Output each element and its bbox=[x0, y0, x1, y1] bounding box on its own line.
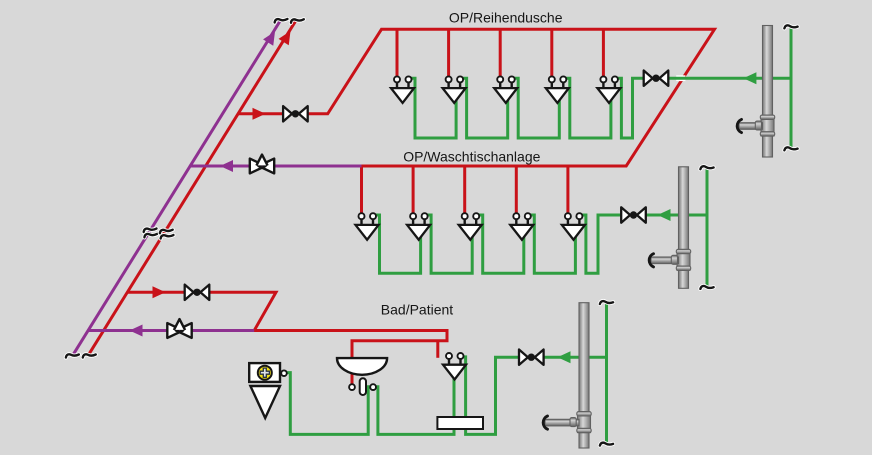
dispenser funnel triangle bbox=[250, 386, 280, 418]
wire green loop shower 4-5 bbox=[565, 78, 611, 138]
washbasin fixture 5 bbox=[562, 213, 585, 240]
wire green loop shower 5 to supply line bbox=[617, 78, 791, 138]
arrow red to Bad/Patient bbox=[153, 286, 166, 298]
wire green from dispenser to basin bbox=[287, 373, 368, 435]
arrow green cold supply row 3 bbox=[558, 351, 571, 363]
wire purple return Waschtischanlage bbox=[190, 165, 361, 168]
wire purple return Bad/Patient bbox=[88, 329, 254, 332]
arrow red flow up riser bbox=[279, 28, 296, 45]
wire green loop shower 2-3 bbox=[462, 78, 508, 138]
break mark green line 1 top bbox=[784, 25, 797, 28]
break mark green line 2 bottom bbox=[700, 286, 713, 289]
wire red drop to washbasin 4 bbox=[515, 166, 518, 213]
break mark green line 2 top bbox=[700, 166, 713, 169]
arrow purple return Bad/Patient bbox=[130, 325, 143, 337]
washbasin drain circle left bbox=[349, 384, 355, 390]
wire green loop washbasin 2-3 bbox=[427, 215, 473, 273]
svg-text:OP/Waschtischanlage: OP/Waschtischanlage bbox=[403, 149, 540, 165]
riser pipe 2 (OP/Waschtischanlage) with T-fitting bbox=[649, 167, 691, 288]
break mark purple riser top bbox=[274, 18, 287, 23]
dispenser box bbox=[249, 363, 280, 382]
break mark red riser top bbox=[291, 18, 304, 23]
wire red drop to washbasin 1 bbox=[360, 166, 363, 213]
wire green loop washbasin 4-5 bbox=[530, 215, 576, 273]
wire red drop to shower 2 bbox=[447, 29, 450, 76]
valve green row 2 bbox=[621, 207, 646, 222]
wire red branch to shower row + Reihendusche ring + Waschtischanlage line bbox=[238, 29, 715, 166]
wire red drop to shower 5 bbox=[602, 29, 605, 76]
riser pipe 3 (Bad/Patient) with T-fitting bbox=[543, 303, 591, 448]
wire green riser line 1 bbox=[790, 27, 793, 149]
wire green loop washbasin 3-4 bbox=[478, 215, 524, 273]
washbasin drain circle right bbox=[370, 384, 376, 390]
shower fixture 1 bbox=[391, 76, 414, 103]
washbasin fixture 2 bbox=[407, 213, 430, 240]
dispenser cross emblem bbox=[258, 366, 272, 380]
wire green loop washbasin 1-2 bbox=[375, 215, 421, 273]
arrow green cold supply row 2 bbox=[658, 209, 671, 221]
halo at green-red crossing bbox=[676, 75, 685, 81]
wire green from basin to bath mixer bbox=[378, 366, 454, 434]
shower fixture 3 bbox=[494, 76, 517, 103]
break mark purple riser bottom bbox=[66, 353, 79, 357]
washbasin bowl Bad/Patient bbox=[337, 358, 387, 375]
wire green loop washbasin 5 to supply line bbox=[581, 215, 707, 273]
bathtub rectangle bbox=[437, 417, 483, 429]
break mark red riser bottom bbox=[82, 353, 95, 357]
break mark green line 1 bottom bbox=[784, 147, 797, 150]
valve red Bad/Patient branch bbox=[185, 285, 210, 300]
wire red drop to washbasin 5 bbox=[566, 166, 569, 213]
wire green riser line 3 bbox=[605, 303, 608, 445]
washbasin fixture 1 bbox=[356, 213, 379, 240]
wire red drop to shower 1 bbox=[396, 29, 399, 76]
wire red stub below washbasin bbox=[351, 372, 354, 384]
svg-text:Bad/Patient: Bad/Patient bbox=[381, 302, 453, 318]
valve purple Waschtischanlage bbox=[250, 155, 274, 174]
svg-text:OP/Reihendusche: OP/Reihendusche bbox=[449, 10, 563, 26]
dispenser outlet circle bbox=[281, 370, 287, 376]
wire green riser line 2 bbox=[706, 168, 709, 288]
arrow green cold supply row 1 bbox=[743, 72, 756, 84]
valve green row 1 bbox=[644, 71, 669, 86]
valve purple Bad/Patient bbox=[167, 319, 191, 338]
wire red drop to washbasin 2 bbox=[412, 166, 415, 213]
arrow purple return Waschtischanlage bbox=[220, 160, 233, 172]
washbasin fixture 3 bbox=[459, 213, 482, 240]
shower fixture 5 bbox=[597, 76, 620, 103]
shower fixture 4 bbox=[546, 76, 569, 103]
arrow red to shower row bbox=[253, 108, 266, 120]
break mark red riser middle bbox=[159, 228, 173, 238]
washbasin trap capsule bbox=[360, 378, 366, 395]
break mark green line 3 bottom bbox=[600, 443, 613, 446]
wire green from bath mixer to supply line bbox=[462, 357, 607, 435]
valve green row 3 bbox=[519, 350, 544, 365]
wire red branch Bad/Patient bbox=[127, 292, 447, 358]
arrow purple flow up riser bbox=[263, 28, 280, 45]
wire red main riser diagonal bbox=[88, 21, 296, 356]
valve red shower branch bbox=[283, 106, 308, 121]
wire red drop to shower 3 bbox=[499, 29, 502, 76]
wire red drop to washbasin 3 bbox=[463, 166, 466, 213]
wire purple circulation riser diagonal bbox=[73, 21, 281, 356]
riser pipe 1 (OP/Reihendusche) with T-fitting bbox=[737, 26, 775, 158]
shower fixture 2 bbox=[443, 76, 466, 103]
bath mixer fixture bbox=[443, 353, 466, 380]
wire red drop to bath mixer bbox=[436, 341, 439, 358]
wire green loop shower 3-4 bbox=[514, 78, 560, 138]
wire green loop shower 1-2 bbox=[411, 78, 457, 138]
break mark green line 3 top bbox=[600, 301, 613, 304]
washbasin fixture 4 bbox=[510, 213, 533, 240]
wire red drop to shower 4 bbox=[550, 29, 553, 76]
break mark purple riser middle bbox=[143, 227, 157, 237]
